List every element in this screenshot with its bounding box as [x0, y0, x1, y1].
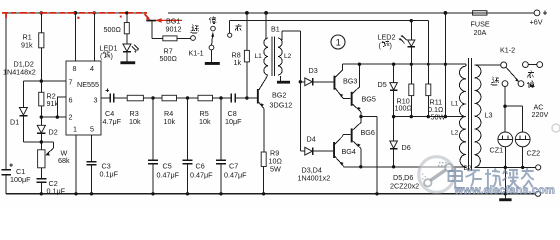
node junction dots on bottom rail: [40, 192, 507, 195]
wire red dashed highlight on top rail: [2, 13, 147, 18]
svg-text:K1-2: K1-2: [500, 46, 515, 55]
ground bar below LED1: [120, 61, 135, 64]
watermark url: [454, 184, 555, 196]
svg-text:L2: L2: [284, 53, 292, 60]
transistor Q4 BG4: [333, 134, 361, 167]
capacitor C3: [87, 135, 119, 194]
svg-text:D5: D5: [378, 80, 387, 89]
svg-text:10μF: 10μF: [225, 117, 242, 126]
svg-text:3: 3: [94, 96, 98, 105]
svg-text:BG5: BG5: [362, 94, 376, 103]
svg-text:5W: 5W: [270, 165, 281, 174]
svg-text:BG6: BG6: [361, 128, 375, 137]
label charge char K1-2: [528, 71, 534, 78]
svg-text:9012: 9012: [166, 25, 182, 34]
terminal AC lower: [535, 191, 540, 196]
svg-text:220V: 220V: [532, 110, 549, 119]
resistor R8: [232, 13, 257, 98]
diode D5: [378, 64, 398, 116]
op-amp U1 NE555 timer: [66, 61, 101, 135]
resistor R1: [21, 13, 44, 81]
LED LED1 red: [100, 44, 139, 62]
label stop char K1-2: [527, 81, 534, 88]
svg-text:BG4: BG4: [342, 147, 356, 156]
svg-text:2: 2: [69, 113, 73, 122]
svg-text:10k: 10k: [129, 117, 141, 126]
transformer B2 primary lower L2: [451, 117, 466, 167]
svg-text:20A: 20A: [474, 28, 487, 37]
transformer B2 core: [464, 58, 472, 172]
watermark faint ring right edge: [552, 124, 560, 132]
node after R3: [151, 96, 154, 99]
transistor Q5 BG5: [351, 64, 376, 116]
watermark text dianzifashaoyou: [449, 168, 534, 189]
watermark logo circle: [419, 157, 455, 193]
emitter line BG4 BG6: [359, 165, 466, 168]
svg-text:L1: L1: [451, 101, 459, 108]
diode D6: [390, 117, 411, 167]
svg-text:0.47μF: 0.47μF: [157, 170, 180, 179]
resistor R10: [395, 64, 414, 116]
svg-text:7: 7: [69, 78, 73, 87]
diode D1: [10, 81, 27, 142]
wire CZ node to ground rail: [504, 167, 506, 193]
svg-text:1N4001x2: 1N4001x2: [298, 174, 331, 183]
transistor Q BG1 9012: [146, 20, 181, 39]
LED LED2 green: [378, 21, 415, 64]
node after R5: [219, 96, 222, 99]
collector bus A: [342, 62, 466, 66]
svg-text:+6V: +6V: [530, 18, 543, 27]
svg-text:NE555: NE555: [77, 80, 99, 89]
resistor R4: [162, 95, 198, 126]
transformer B2 primary upper L1: [451, 66, 466, 116]
svg-text:50W: 50W: [431, 113, 446, 122]
svg-text:3DG12: 3DG12: [270, 101, 293, 110]
transistor Q3 BG3: [334, 64, 358, 99]
svg-text:B1: B1: [271, 25, 280, 34]
capacitor C5: [148, 98, 180, 194]
wire second rail to charge contact: [230, 19, 429, 33]
svg-text:C6: C6: [196, 162, 205, 171]
node junction dots on top rail: [40, 11, 448, 15]
label D1,D2 1N4148x2: [3, 60, 36, 77]
resistor R5: [198, 95, 231, 126]
svg-text:500Ω: 500Ω: [104, 25, 122, 34]
label stop char K1-1: [209, 16, 217, 23]
svg-text:L2: L2: [451, 130, 459, 137]
resistor R2: [39, 81, 59, 125]
svg-text:): ): [390, 41, 392, 50]
resistor 500ohm LED1 series: [104, 13, 130, 44]
svg-text:91k: 91k: [47, 99, 59, 108]
diode D4: [300, 135, 333, 156]
wire top supply rail: [6, 12, 534, 14]
resistor R7: [152, 36, 191, 63]
svg-text:C7: C7: [229, 162, 238, 171]
label D3,D4 1N4001x2: [298, 166, 331, 183]
red emitter BG1: [145, 14, 151, 20]
svg-text:0.1μF: 0.1μF: [47, 186, 66, 195]
svg-text:8: 8: [73, 64, 77, 73]
resistor R9: [261, 149, 282, 194]
svg-text:4: 4: [90, 64, 94, 73]
svg-text:D2: D2: [49, 128, 58, 137]
capacitor C8: [225, 93, 257, 125]
red arrow to BG1: [155, 17, 182, 26]
svg-text:1k: 1k: [234, 58, 242, 67]
resistor R3: [127, 95, 162, 126]
svg-text:D4: D4: [307, 135, 316, 144]
wire B1 secondary to D3 D4: [299, 31, 302, 151]
svg-text:K1-1: K1-1: [189, 49, 204, 58]
wire pins 2 and 6: [40, 97, 66, 119]
svg-text:L1: L1: [255, 53, 263, 60]
svg-text:10k: 10k: [199, 117, 211, 126]
label D5,D6 2CZ20x2: [390, 173, 419, 190]
fuse FUSE 20A: [471, 11, 490, 37]
switch K1-2: [475, 46, 543, 87]
svg-text:91k: 91k: [21, 41, 33, 50]
diode D3: [300, 66, 333, 86]
svg-text:5: 5: [90, 124, 94, 133]
svg-text:500Ω: 500Ω: [160, 54, 178, 63]
svg-text:0.47μF: 0.47μF: [190, 170, 213, 179]
svg-text:68k: 68k: [58, 156, 70, 165]
transformer B1 primary L1: [255, 13, 269, 75]
switch K1-1: [189, 26, 232, 57]
wire rail branch to center tap: [444, 13, 446, 117]
wire D1 return and wiper: [23, 140, 53, 155]
svg-text:www.elecfans.com: www.elecfans.com: [454, 184, 555, 196]
transistor Q2 BG2 3DG12: [257, 76, 292, 153]
center tap bus: [392, 115, 466, 118]
svg-text:BG2: BG2: [272, 91, 286, 100]
ground chassis bottom right: [499, 194, 511, 201]
svg-text:CZ2: CZ2: [527, 149, 541, 158]
svg-text:FUSE: FUSE: [471, 19, 490, 28]
node after R4: [186, 96, 189, 99]
svg-text:100Ω: 100Ω: [395, 104, 413, 113]
svg-text:0.1μF: 0.1μF: [100, 170, 119, 179]
socket CZ1: [490, 132, 513, 154]
transistor Q6 BG6: [351, 117, 375, 167]
resistor R11: [426, 21, 446, 122]
label (red): [100, 51, 113, 60]
terminal +6V: [530, 10, 548, 27]
svg-text:L3: L3: [485, 111, 493, 120]
svg-text:4.7μF: 4.7μF: [103, 117, 122, 126]
node marker circle 1: [331, 35, 345, 49]
svg-text:): ): [111, 51, 113, 60]
svg-text:D6: D6: [402, 143, 411, 152]
svg-text:C5: C5: [163, 162, 172, 171]
svg-text:D1: D1: [10, 118, 19, 127]
svg-text:BG1: BG1: [166, 17, 180, 26]
svg-text:1: 1: [73, 124, 77, 133]
capacitor C7: [216, 98, 247, 194]
transformer B2 secondary L3: [475, 65, 493, 167]
terminal AC upper: [536, 165, 541, 170]
ground below K1-1 pole: [205, 50, 220, 65]
transformer B1 core: [271, 25, 280, 76]
capacitor C2: [36, 179, 65, 196]
label AC 220V: [532, 103, 549, 120]
label invert char K1-1: [191, 25, 199, 33]
node BG2 base / R8: [245, 96, 248, 99]
wire pin8 pin4 to rail: [75, 13, 94, 61]
svg-text:1: 1: [336, 38, 341, 48]
transformer B1 secondary L2: [278, 31, 301, 81]
socket CZ2: [515, 132, 540, 158]
svg-text:D3: D3: [309, 66, 318, 75]
ground below B1 L2: [277, 81, 290, 84]
svg-text:1N4148x2: 1N4148x2: [3, 67, 36, 76]
svg-text:BG3: BG3: [343, 77, 357, 86]
wire left rail: [5, 13, 7, 194]
svg-text:6: 6: [69, 96, 73, 105]
svg-text:100μF: 100μF: [10, 175, 31, 184]
node BG5 emitter junction: [359, 115, 377, 194]
diode D2: [37, 125, 58, 150]
svg-text:CZ1: CZ1: [490, 145, 504, 154]
label (green): [379, 41, 392, 50]
label invert char K1-2: [491, 77, 499, 85]
capacitor C1: [2, 163, 31, 183]
wire pin1 to ground: [75, 135, 77, 194]
svg-text:2CZ20x2: 2CZ20x2: [390, 181, 419, 190]
wire socket bottoms to AC terminal: [475, 147, 536, 169]
capacitor C6: [183, 98, 214, 194]
wire bottom ground rail: [6, 193, 535, 195]
capacitor C4: [101, 89, 127, 126]
potentiometer W 68k: [38, 149, 70, 179]
svg-text:0.47μF: 0.47μF: [224, 170, 247, 179]
wire invert contact to sockets: [503, 87, 522, 133]
svg-text:10k: 10k: [164, 117, 176, 126]
wire pin7 to divider node: [23, 79, 66, 82]
red stray marks: [77, 16, 121, 19]
label charge char K1-1: [235, 24, 241, 31]
